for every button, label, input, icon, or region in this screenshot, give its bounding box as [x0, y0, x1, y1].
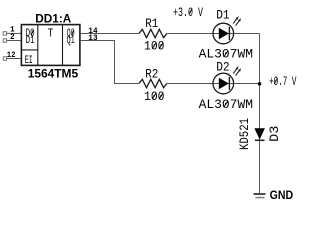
- right vertical rail wire: [259, 34, 261, 194]
- diode D3: [254, 128, 265, 140]
- ground symbol: [254, 194, 266, 198]
- resistor R2: [139, 79, 167, 87]
- resistor R1: [139, 29, 167, 37]
- LED D1: [213, 23, 234, 44]
- slash of zero in AL307WM D1: [224, 51, 228, 58]
- IC DD1 outer box: [21, 25, 80, 66]
- svg-text:R2: R2: [145, 66, 158, 81]
- slash of zero in +0.7: [274, 78, 277, 84]
- svg-text:T: T: [48, 28, 54, 41]
- svg-text:GND: GND: [270, 188, 294, 202]
- terminal square pin1: [3, 32, 6, 35]
- slash of zero in D0: [31, 30, 33, 35]
- svg-text:D1: D1: [216, 8, 230, 23]
- svg-text:KD521: KD521: [237, 118, 252, 150]
- svg-text:D1: D1: [26, 35, 35, 47]
- svg-text:D3: D3: [267, 126, 282, 142]
- IC divider left column: [37, 25, 39, 66]
- terminal square pin12: [3, 57, 6, 60]
- wire pin13 bend to R2: [81, 41, 139, 84]
- svg-text:R1: R1: [145, 16, 158, 31]
- emission arrows of D1: [233, 16, 241, 25]
- wire pin12 to IC: [7, 58, 22, 60]
- wire pin14 to R1: [81, 33, 139, 35]
- svg-text:EI: EI: [25, 55, 33, 67]
- slash of zero in Q0: [72, 30, 74, 35]
- wire pin1 to IC: [7, 32, 22, 34]
- LED D2: [213, 73, 234, 94]
- IC divider right column: [62, 25, 64, 66]
- svg-text:+3.0 V: +3.0 V: [173, 5, 203, 20]
- junction dot: [258, 82, 262, 86]
- slashes of zeros in 100 R1: [152, 43, 156, 49]
- svg-text:+0.7 V: +0.7 V: [269, 74, 297, 89]
- wire R2 to right rail: [167, 83, 260, 85]
- svg-text:Q1: Q1: [67, 35, 75, 47]
- slash of zero in AL307WM D2: [224, 101, 228, 108]
- IC divider EI cell: [21, 49, 37, 51]
- svg-text:13: 13: [88, 34, 97, 43]
- emission arrows of D2: [233, 66, 241, 75]
- svg-text:D2: D2: [216, 60, 229, 75]
- svg-text:2: 2: [10, 33, 15, 42]
- slash of zero in +3.0: [189, 9, 192, 15]
- svg-text:12: 12: [7, 51, 16, 60]
- wire pin2 to IC: [7, 40, 22, 42]
- slashes of zeros in 100 R2: [152, 93, 156, 99]
- wire R1 to right rail: [167, 33, 260, 35]
- svg-text:DD1:A: DD1:A: [35, 12, 71, 26]
- svg-text:1564TM5: 1564TM5: [28, 67, 79, 81]
- terminal square pin2: [3, 39, 6, 42]
